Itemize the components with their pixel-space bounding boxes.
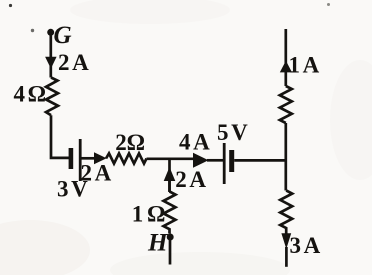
svg-text:3 A: 3 A	[290, 233, 321, 258]
wire battery to arrow	[81, 157, 95, 160]
svg-text:2 Ω: 2 Ω	[115, 130, 144, 155]
current arrow 2 A (up) on 1-ohm branch	[164, 158, 207, 192]
svg-text:G: G	[54, 22, 72, 49]
current arrow 2 A (down) below G	[45, 50, 89, 75]
resistor 1-ohm	[132, 192, 176, 234]
svg-text:2 A: 2 A	[81, 161, 112, 186]
svg-text:4 A: 4 A	[179, 130, 210, 155]
speck top right	[327, 3, 330, 6]
current arrow 1 A (up) top right	[280, 53, 320, 78]
svg-text:2 A: 2 A	[58, 50, 89, 75]
wire below 3 A arrow	[285, 247, 288, 267]
svg-text:2 A: 2 A	[175, 167, 206, 192]
svg-text:1 Ω: 1 Ω	[132, 202, 165, 227]
resistor 2-ohm	[106, 130, 147, 164]
wire G down to 4-ohm resistor	[49, 32, 52, 78]
battery 5 V	[217, 120, 248, 184]
current arrow 2 A (right) after 3 V battery	[81, 152, 112, 185]
battery 3 V	[57, 139, 88, 202]
svg-text:4 Ω: 4 Ω	[14, 82, 46, 107]
wire arrow to 5 V battery	[207, 159, 223, 162]
speck top left	[9, 4, 12, 7]
wire below node H	[169, 237, 172, 265]
current arrow 4 A (right) before 5 V battery	[179, 130, 210, 168]
resistor 4-ohm	[14, 78, 59, 116]
wire resistor to junction and on toward 4 A arrow	[147, 157, 194, 160]
node H	[147, 229, 174, 256]
resistor bottom right	[280, 191, 292, 234]
svg-text:H: H	[147, 229, 169, 256]
wire right branch vertical (middle, through junction)	[284, 123, 287, 191]
wire right branch vertical (top)	[284, 29, 287, 86]
wire resistor down and corner to battery	[51, 115, 69, 158]
wire battery to right junction	[234, 159, 287, 162]
wire arrow to 1-ohm resistor	[168, 181, 171, 192]
node G	[47, 22, 71, 49]
svg-text:1 A: 1 A	[289, 53, 320, 78]
current arrow 3 A (down) bottom right	[281, 233, 320, 258]
speck left of G	[31, 29, 34, 32]
resistor top right	[280, 86, 292, 123]
svg-text:5 V: 5 V	[217, 120, 248, 145]
